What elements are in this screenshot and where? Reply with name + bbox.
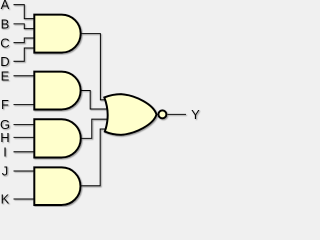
svg-text:B: B bbox=[1, 17, 10, 32]
and-gate U2 bbox=[34, 72, 80, 110]
svg-text:D: D bbox=[0, 54, 9, 69]
svg-text:I: I bbox=[3, 144, 7, 159]
and-gate U4 bbox=[34, 167, 80, 205]
svg-text:F: F bbox=[1, 97, 9, 112]
svg-text:Y: Y bbox=[191, 107, 200, 122]
wire H bbox=[14, 136, 37, 138]
wire I bbox=[14, 151, 37, 153]
svg-text:J: J bbox=[2, 164, 9, 179]
wire E bbox=[14, 75, 37, 77]
nor-gate U5 body bbox=[104, 94, 156, 135]
svg-text:H: H bbox=[0, 130, 9, 145]
wire D bbox=[14, 48, 37, 61]
nor-gate U5 inversion bubble bbox=[158, 110, 166, 118]
svg-text:K: K bbox=[1, 192, 10, 207]
wire C bbox=[14, 38, 37, 43]
wire J bbox=[14, 170, 37, 172]
wire A bbox=[14, 5, 37, 19]
wire B bbox=[14, 24, 37, 29]
svg-text:A: A bbox=[1, 0, 10, 12]
and-gate U3 bbox=[34, 119, 80, 157]
wire U1 output to NOR input 1 bbox=[80, 34, 107, 100]
svg-text:C: C bbox=[0, 35, 9, 50]
wire U4 output to NOR input 4 bbox=[80, 129, 107, 186]
wire U3 output to NOR input 3 bbox=[80, 119, 107, 138]
wire U2 output to NOR input 2 bbox=[80, 91, 107, 110]
and-gate U1 bbox=[34, 15, 80, 53]
wire K bbox=[14, 198, 37, 200]
wire Y output bbox=[167, 113, 186, 115]
svg-text:E: E bbox=[1, 68, 10, 83]
wire G bbox=[14, 124, 37, 126]
wire F bbox=[14, 104, 37, 106]
